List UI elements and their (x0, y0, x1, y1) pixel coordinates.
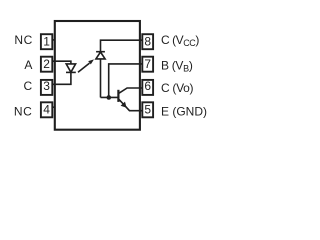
svg-text:A: A (24, 58, 32, 72)
svg-text:1: 1 (43, 34, 50, 48)
svg-text:8: 8 (144, 34, 151, 48)
svg-text:NC: NC (14, 33, 33, 47)
svg-text:E (GND): E (GND) (161, 105, 207, 119)
svg-text:6: 6 (144, 79, 151, 93)
svg-text:C: C (24, 79, 33, 93)
svg-text:4: 4 (43, 103, 50, 117)
svg-text:5: 5 (144, 103, 151, 117)
svg-text:B (VB): B (VB) (161, 59, 193, 74)
svg-text:7: 7 (144, 57, 151, 71)
svg-text:NC: NC (14, 104, 33, 118)
svg-text:C (Vo): C (Vo) (161, 81, 194, 95)
svg-text:3: 3 (43, 79, 50, 93)
svg-text:2: 2 (43, 57, 50, 71)
